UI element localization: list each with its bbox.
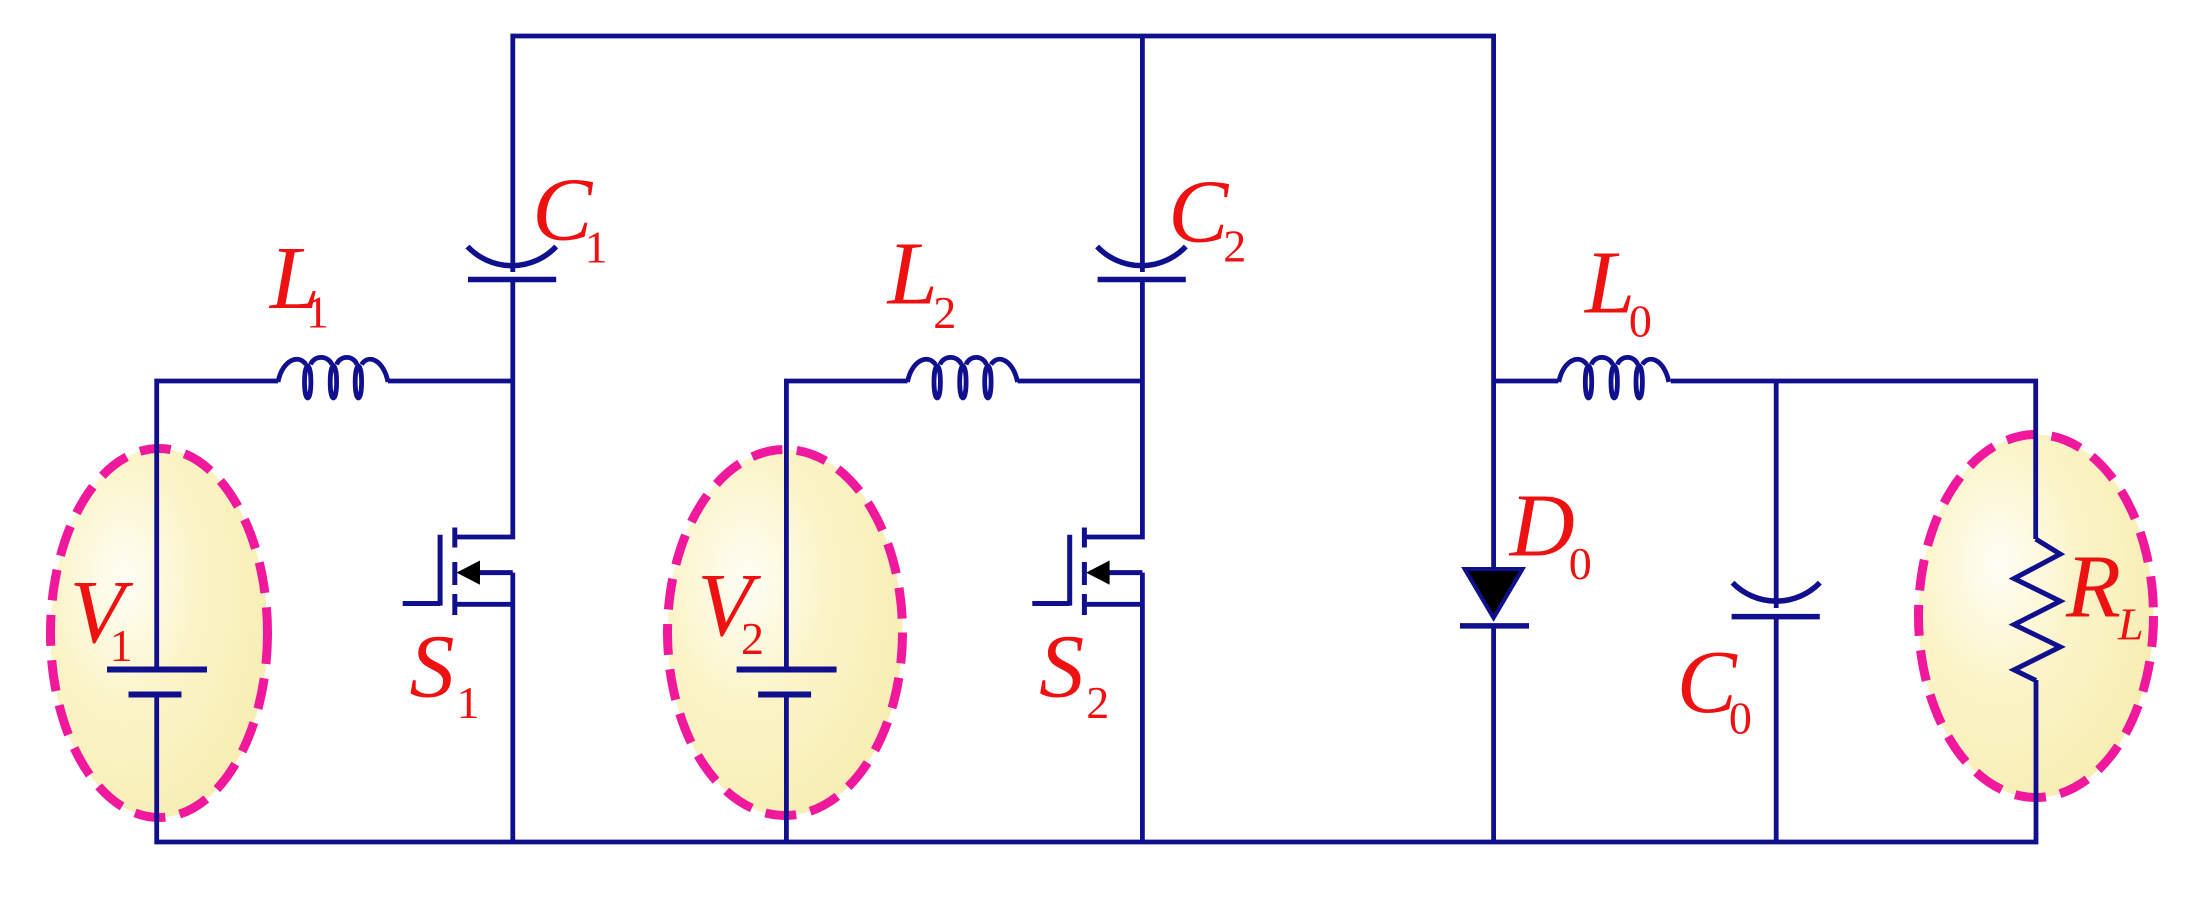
wire S2 source to bottom bus (1084, 573, 1142, 842)
svg-text:S: S (410, 618, 455, 717)
svg-text:L: L (2117, 599, 2144, 650)
svg-text:2: 2 (741, 613, 764, 664)
svg-text:2: 2 (933, 287, 956, 338)
battery V2 (737, 670, 837, 695)
svg-text:S: S (1039, 618, 1084, 717)
wire bottom bus (157, 680, 2036, 842)
capacitor C1 (468, 247, 557, 280)
inductor L0 (1559, 357, 1669, 398)
wire L0 to RL branch (1671, 381, 2036, 539)
wire C2 to drain S2 (1084, 280, 1142, 538)
wire C0 bottom (1774, 617, 1779, 842)
wire L1 to C1 node (388, 379, 513, 384)
wire top bus (513, 36, 1494, 567)
svg-text:C: C (1168, 163, 1229, 262)
source ellipse V2 (668, 450, 903, 816)
wire C0 top (1774, 381, 1779, 608)
wire C2 top drop (1140, 36, 1145, 272)
wire S1 source to bottom bus (455, 573, 513, 842)
svg-text:L: L (1583, 234, 1635, 333)
inductor L2 (908, 357, 1018, 398)
svg-text:0: 0 (1569, 538, 1592, 589)
wire V1 to L1 (157, 381, 278, 667)
svg-text:1: 1 (306, 287, 329, 338)
svg-text:2: 2 (1223, 221, 1246, 272)
battery V1 (107, 670, 207, 695)
wire L2 to C2 node (1018, 379, 1143, 384)
wire node D0 to L0 (1494, 379, 1559, 384)
load ellipse RL (1919, 435, 2154, 798)
diode D0 (1460, 569, 1529, 626)
svg-text:D: D (1508, 477, 1575, 576)
svg-text:R: R (2065, 538, 2121, 637)
capacitor C0 (1732, 583, 1820, 617)
wire V2 bottom (784, 697, 789, 842)
transistor S1 (403, 528, 513, 616)
svg-text:0: 0 (1629, 296, 1652, 347)
svg-text:1: 1 (585, 222, 608, 273)
svg-text:1: 1 (457, 677, 480, 728)
capacitor C2 (1097, 247, 1186, 280)
svg-text:0: 0 (1729, 693, 1752, 744)
source ellipse V1 (51, 449, 268, 818)
svg-text:L: L (886, 225, 938, 324)
wire C1 to drain S1 (455, 280, 513, 538)
svg-text:2: 2 (1086, 677, 1109, 728)
wire D0 cathode to bottom bus (1491, 626, 1496, 842)
wire V2 to L2 (786, 381, 907, 667)
svg-text:1: 1 (110, 620, 133, 671)
resistor RL (2014, 539, 2060, 681)
transistor S2 (1032, 528, 1142, 616)
inductor L1 (278, 357, 388, 398)
